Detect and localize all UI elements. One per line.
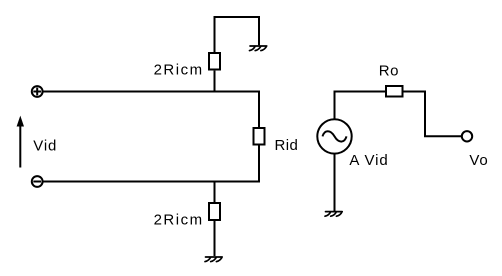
wire top 2Ricm branch: up from top rail to resistor <box>214 71 216 92</box>
ground (below source) <box>325 212 342 217</box>
arrow Vid direction (points up) <box>17 117 23 167</box>
terminal + (Vid positive input) <box>32 86 43 97</box>
svg-text:Ro: Ro <box>379 63 399 80</box>
wire bottom rail from - terminal up Rid branch lower segment <box>43 146 259 182</box>
wire from bottom 2Ricm resistor down to ground <box>214 221 216 256</box>
svg-text:Vo: Vo <box>469 152 488 169</box>
svg-text:Vid: Vid <box>33 138 57 155</box>
resistor 2Ricm (bottom) <box>209 203 220 220</box>
resistor Rid <box>254 128 265 145</box>
wire from Ro right then down then right to Vo terminal <box>404 92 462 137</box>
resistor Ro <box>386 86 403 97</box>
terminal Vo <box>462 131 472 141</box>
svg-text:Rid: Rid <box>275 137 299 154</box>
resistor 2Ricm (top) <box>209 53 220 70</box>
wire from source bottom down to ground <box>334 154 336 211</box>
wire from top 2Ricm resistor up and over to ground <box>215 17 260 52</box>
wire top rail from + terminal to Rid branch upper segment <box>43 92 259 128</box>
svg-text:2Ricm: 2Ricm <box>154 212 204 229</box>
wire from source top up and right to Ro <box>335 92 386 120</box>
wire bottom 2Ricm branch: down from bottom rail to resistor <box>214 182 216 203</box>
voltage source A Vid (sine source) <box>317 119 351 153</box>
ground (top right) <box>250 46 267 51</box>
terminal - (Vid negative input) <box>32 176 43 187</box>
svg-text:A Vid: A Vid <box>349 152 388 169</box>
ground (bottom left) <box>205 257 222 262</box>
svg-text:2Ricm: 2Ricm <box>154 62 204 79</box>
